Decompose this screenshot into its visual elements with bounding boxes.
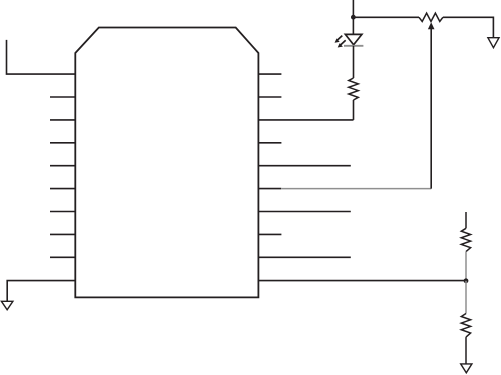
wire LED to R1 <box>353 46 355 78</box>
pin left 5 <box>50 165 75 167</box>
wiper arrow <box>428 22 435 29</box>
pin right 6 stub <box>258 188 281 190</box>
pin right 4 <box>258 142 281 144</box>
pin right 7 <box>258 211 350 213</box>
ground bottom-left <box>1 301 13 310</box>
pin left 8 <box>50 233 75 235</box>
resistor R4 <box>461 314 470 338</box>
wire right 6 to wiper <box>281 188 431 190</box>
pin left 4 <box>50 142 75 144</box>
pin right 5 <box>258 165 350 167</box>
wire stub above R3 <box>465 212 467 228</box>
IC U1 <box>75 28 258 298</box>
wire node to R4 <box>465 281 467 314</box>
pin left 9 <box>50 256 75 258</box>
pin left 3 <box>50 119 75 121</box>
wire wiper down <box>430 29 432 189</box>
wire right 10 to divider node <box>258 280 466 282</box>
wire top-left input <box>7 40 76 74</box>
ground bottom-right <box>461 364 472 373</box>
resistor R1 <box>349 78 359 100</box>
pin left 7 <box>50 211 75 213</box>
wire R4 to ground <box>465 337 467 364</box>
junction divider node <box>464 278 469 283</box>
wire junction to potentiometer <box>353 16 419 18</box>
pin left 2 <box>50 96 75 98</box>
ground top-right <box>488 38 499 48</box>
pin left 6 <box>50 188 75 190</box>
wire R1 to pin <box>353 100 355 120</box>
junction top <box>351 15 356 20</box>
pin right 9 <box>258 256 350 258</box>
pin right 8 <box>258 233 281 235</box>
wire top supply <box>352 0 354 34</box>
resistor R3 <box>461 228 470 251</box>
pin right 2 <box>258 96 281 98</box>
LED D1 <box>335 34 364 47</box>
wire R3 to node <box>465 252 467 281</box>
wire potentiometer to ground <box>443 17 494 37</box>
pin right 1 <box>258 73 281 75</box>
potentiometer R2 <box>419 13 443 21</box>
wire right 3 to resistor R1 <box>258 119 353 121</box>
wire bottom-left to ground <box>7 281 75 302</box>
